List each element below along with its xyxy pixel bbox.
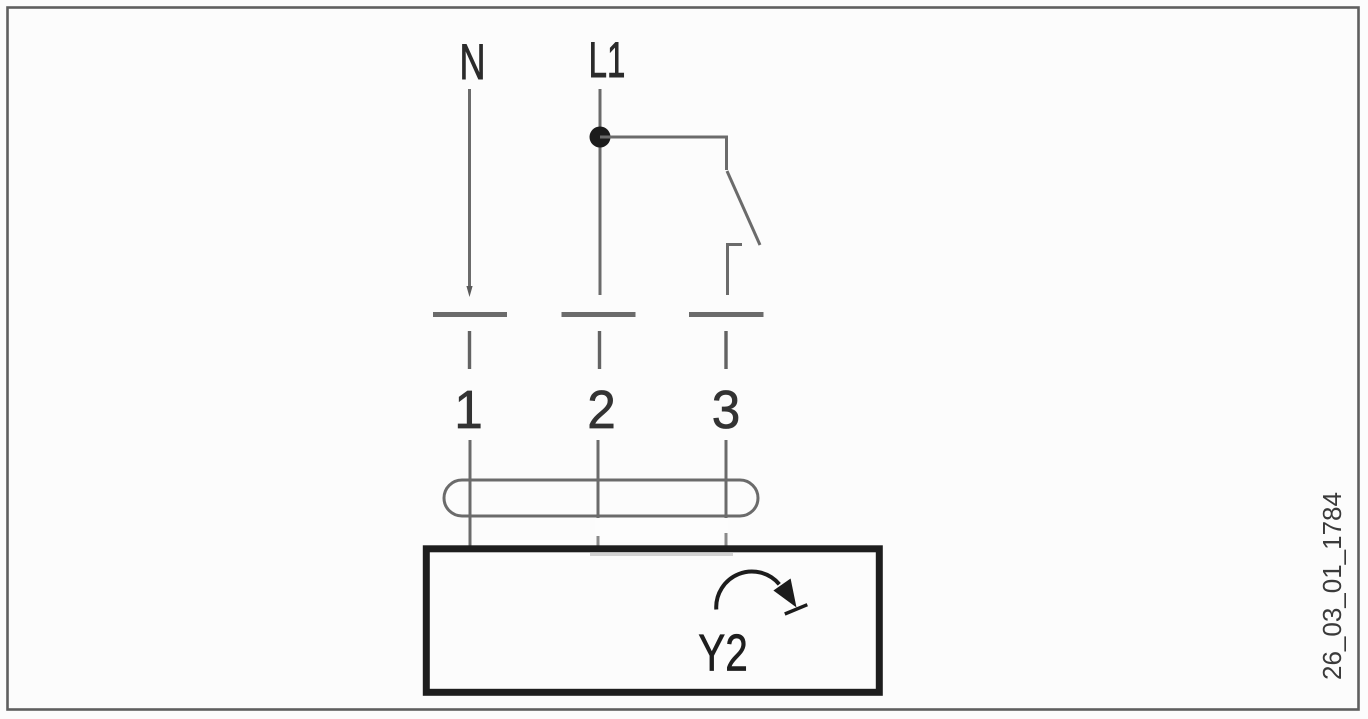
connector capsule <box>444 480 758 516</box>
white patch over wires 2-3 <box>595 518 729 542</box>
rotation arrow tip slash <box>785 605 808 614</box>
wire N arrowhead <box>466 286 472 297</box>
pin number 1 <box>454 380 483 440</box>
svg-text:26_03_01_1784: 26_03_01_1784 <box>1317 492 1347 680</box>
wire 3 stub above actuator <box>725 533 728 546</box>
wire 2 to actuator <box>597 440 600 546</box>
wire L1 vertical <box>599 89 602 295</box>
node L1 label <box>589 32 626 87</box>
terminal bar 2 <box>562 312 636 317</box>
wire switch upper vertical <box>725 136 728 171</box>
rotation arrow head <box>773 579 796 608</box>
node N label <box>460 35 486 90</box>
wire N vertical <box>468 89 471 288</box>
pin number 3 <box>712 380 741 440</box>
wire 3 to actuator <box>725 440 728 546</box>
svg-text:3: 3 <box>712 380 741 440</box>
wire 2 stub above actuator <box>597 536 600 546</box>
svg-text:1: 1 <box>454 380 483 440</box>
rotation arrow arc <box>716 572 779 610</box>
patch shadow line under box border <box>590 553 733 556</box>
wire stub below terminal 2 <box>598 331 601 369</box>
svg-text:Y2: Y2 <box>698 624 748 682</box>
drawing number 26_03_01_1784 <box>1317 492 1347 680</box>
svg-text:N: N <box>460 35 486 90</box>
switch blade <box>727 171 760 245</box>
wire stub below terminal 3 <box>724 331 727 369</box>
switch contact hook <box>728 245 743 296</box>
junction dot on L1 <box>590 127 611 148</box>
wire stub below terminal 1 <box>468 331 471 369</box>
actuator box Y2 <box>426 549 879 693</box>
wire junction to switch horizontal <box>600 136 727 139</box>
label Y2 <box>698 624 748 682</box>
svg-text:L1: L1 <box>589 32 626 87</box>
svg-text:2: 2 <box>587 380 616 440</box>
wire 1 to actuator <box>469 440 472 546</box>
terminal bar 1 <box>433 312 507 317</box>
pin number 2 <box>587 380 616 440</box>
terminal bar 3 <box>689 312 764 317</box>
